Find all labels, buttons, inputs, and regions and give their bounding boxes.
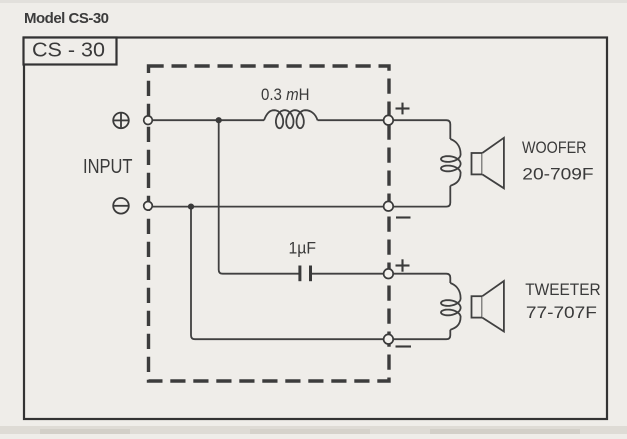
svg-text:1µF: 1µF bbox=[289, 240, 317, 258]
svg-text:INPUT: INPUT bbox=[83, 156, 133, 178]
svg-text:20-709F: 20-709F bbox=[522, 166, 593, 184]
svg-text:0.3 mH: 0.3 mH bbox=[261, 85, 310, 104]
svg-text:77-707F: 77-707F bbox=[526, 304, 597, 322]
svg-text:TWEETER: TWEETER bbox=[525, 281, 601, 299]
svg-text:Model CS-30: Model CS-30 bbox=[24, 10, 109, 27]
svg-text:CS - 30: CS - 30 bbox=[32, 40, 105, 62]
svg-text:WOOFER: WOOFER bbox=[522, 139, 587, 157]
